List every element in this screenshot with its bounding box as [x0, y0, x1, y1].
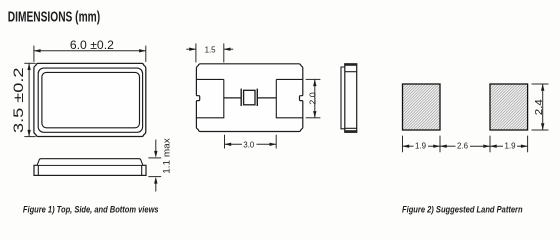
dim 3.5 tick top: [24, 62, 35, 64]
side view left end cap line: [37, 165, 39, 175]
end view seal band bottom: [344, 130, 357, 132]
land pattern right pad: [490, 84, 528, 130]
dim 1.1 arrow top: [155, 140, 157, 153]
crystal plate left: [240, 89, 242, 106]
dim 3.0 arrow left: [225, 143, 232, 146]
svg-text:Figure 2) Suggested Land Patte: Figure 2) Suggested Land Pattern: [402, 205, 523, 215]
land dim 2.4 tick top: [532, 83, 549, 85]
dim 1.1 arrow bottom: [155, 182, 157, 191]
dim 1.1 tick bottom: [148, 176, 161, 178]
dim 3.0 extension right: [275, 135, 277, 149]
dim 6.0 arrow left: [34, 49, 41, 52]
svg-text:6.0 ±0.2: 6.0 ±0.2: [70, 40, 114, 52]
bottom view right pad: [276, 79, 303, 117]
crystal lead right: [257, 97, 276, 99]
land dim 2.6 line: [440, 145, 456, 147]
svg-text:Figure 1) Top, Side, and Bott: Figure 1) Top, Side, and Bottom views: [23, 205, 159, 215]
dim 3.5 arrow top: [27, 63, 30, 70]
land dim 2.6 arrows: [440, 145, 447, 148]
svg-text:3.5 ±0.2: 3.5 ±0.2: [10, 67, 26, 133]
dim 3.0 line right segment: [257, 143, 277, 145]
dim 3.0 extension left: [224, 135, 226, 149]
land dim 2.4 line: [542, 84, 544, 130]
dim 1.5 extension left: [195, 43, 197, 62]
svg-text:2.6: 2.6: [457, 140, 468, 150]
bottom view left pad: [196, 79, 223, 117]
dim 6.0 line: [34, 50, 146, 52]
crystal body rect: [244, 90, 255, 105]
top view lid seam inner: [42, 72, 140, 127]
svg-text:1.9: 1.9: [415, 140, 426, 150]
top view outer outline: [34, 63, 146, 136]
end view pad line bottom: [345, 127, 357, 129]
svg-text:1.9: 1.9: [505, 140, 516, 150]
dim 3.0 line left segment: [225, 143, 243, 145]
bottom view body outline with corner chamfers and side notches: [196, 64, 302, 132]
land dim extension x=402.5: [402, 136, 404, 153]
svg-text:2.0: 2.0: [307, 92, 317, 105]
land dim extension x=440: [439, 136, 441, 153]
dim 1.5 arrow left: [186, 48, 196, 50]
dim 3.5 arrow bottom: [27, 130, 30, 137]
dim 3.5 line: [28, 63, 30, 136]
top view lid seam outer: [38, 68, 142, 132]
land dim 2.4 arrow bottom: [541, 123, 544, 130]
land dim 1.9 left line: [403, 145, 414, 147]
svg-text:DIMENSIONS (mm): DIMENSIONS (mm): [8, 10, 100, 26]
dim 2.0 tick bottom: [306, 117, 321, 119]
side view body: [34, 165, 146, 175]
svg-text:3.0: 3.0: [243, 139, 254, 149]
dim 3.0 arrow right: [270, 143, 277, 146]
end view body: [345, 64, 357, 133]
land dim 1.9 right arrows: [490, 145, 497, 148]
side view right end cap line: [141, 165, 143, 175]
end view seal band top: [344, 63, 357, 65]
end view pad line top: [345, 71, 357, 73]
dim 1.5 extension right: [223, 43, 225, 62]
land dim 2.4 arrow top: [541, 84, 544, 91]
crystal lead left: [224, 97, 241, 99]
dim 1.5 arrow right: [224, 48, 233, 50]
land dim 2.4 tick bottom: [532, 129, 549, 131]
land dim 1.9 right line: [490, 145, 503, 147]
dim 6.0 arrow right: [139, 49, 146, 52]
dim 2.0 arrow bottom: [313, 111, 316, 118]
dim 1.1 tick top: [148, 157, 161, 159]
svg-text:2.4: 2.4: [534, 99, 545, 115]
land dim extension x=527.6: [527, 136, 529, 153]
dim 2.0 line: [314, 79, 316, 117]
side view lid: [37, 159, 142, 165]
dim 2.0 tick top: [306, 78, 321, 80]
land dim 1.9 left arrows: [403, 145, 410, 148]
land pattern left pad: [403, 84, 441, 130]
dim 3.5 tick bottom: [24, 136, 35, 138]
svg-text:1.1 max: 1.1 max: [161, 138, 171, 174]
land dim extension x=490: [489, 136, 491, 153]
end view lid plate: [341, 67, 345, 129]
dim 6.0 extension line left: [33, 46, 35, 62]
svg-text:1.5: 1.5: [205, 44, 216, 54]
crystal plate right: [256, 89, 258, 106]
dim 6.0 extension line right: [145, 46, 147, 62]
dim 2.0 arrow top: [313, 79, 316, 86]
